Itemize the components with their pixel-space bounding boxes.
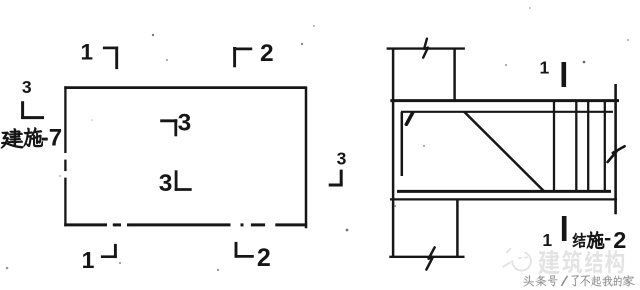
svg-text:1: 1 [81, 40, 94, 65]
watermark logo face [503, 249, 531, 271]
section mark 3 (left) [21, 77, 44, 119]
watermark text 建筑结构 [538, 250, 624, 274]
label 建施-7 [1, 125, 62, 152]
svg-text:1: 1 [540, 58, 550, 78]
svg-text:3: 3 [337, 149, 347, 169]
svg-text:2: 2 [260, 40, 274, 67]
credit line 头条号/了不起我的家 [523, 275, 634, 286]
wall below: bottom edge with break line [389, 247, 464, 269]
plan view: slab outline rectangle [64, 86, 307, 228]
svg-text:-7: -7 [41, 125, 62, 152]
section mark 2 (top) [233, 40, 273, 67]
wall below: right edge [456, 199, 459, 257]
wall left edge (full height) [392, 48, 395, 257]
wall above: right edge [453, 49, 456, 101]
label 结施-2 [573, 227, 627, 253]
section mark 3 (inner bottom) [159, 170, 192, 197]
section mark 1 (top) [81, 40, 119, 70]
stirrup 1 [553, 101, 555, 192]
section arrow 1 (top) [540, 58, 564, 87]
svg-text:2: 2 [257, 244, 271, 272]
wall above: top edge with break line [387, 39, 465, 58]
slab bottom / beam top line [401, 111, 613, 113]
bent-up diagonal bar [464, 112, 544, 191]
section arrow 1 (bottom) [542, 216, 564, 250]
svg-text:1: 1 [82, 247, 95, 273]
slab top line [390, 99, 619, 102]
section mark 3 (right) [329, 149, 347, 187]
svg-text:3: 3 [159, 170, 173, 197]
stirrup 2 [575, 101, 577, 192]
svg-text:2: 2 [613, 227, 626, 253]
right cut edge with break line [608, 84, 625, 214]
section mark 3 (inner top) [160, 110, 191, 137]
stirrup 4 [604, 101, 606, 192]
svg-text:3: 3 [178, 110, 192, 137]
svg-text:3: 3 [22, 77, 32, 97]
svg-text:1: 1 [542, 230, 552, 250]
bar hook tick [406, 113, 412, 125]
beam bottom line [390, 198, 617, 200]
stirrup 3 [587, 101, 589, 192]
section mark 2 (bottom) [235, 242, 271, 272]
bottom rebar line [397, 190, 611, 193]
left anchorage bar (vertical) [401, 112, 404, 176]
section mark 1 (bottom) [82, 244, 117, 273]
